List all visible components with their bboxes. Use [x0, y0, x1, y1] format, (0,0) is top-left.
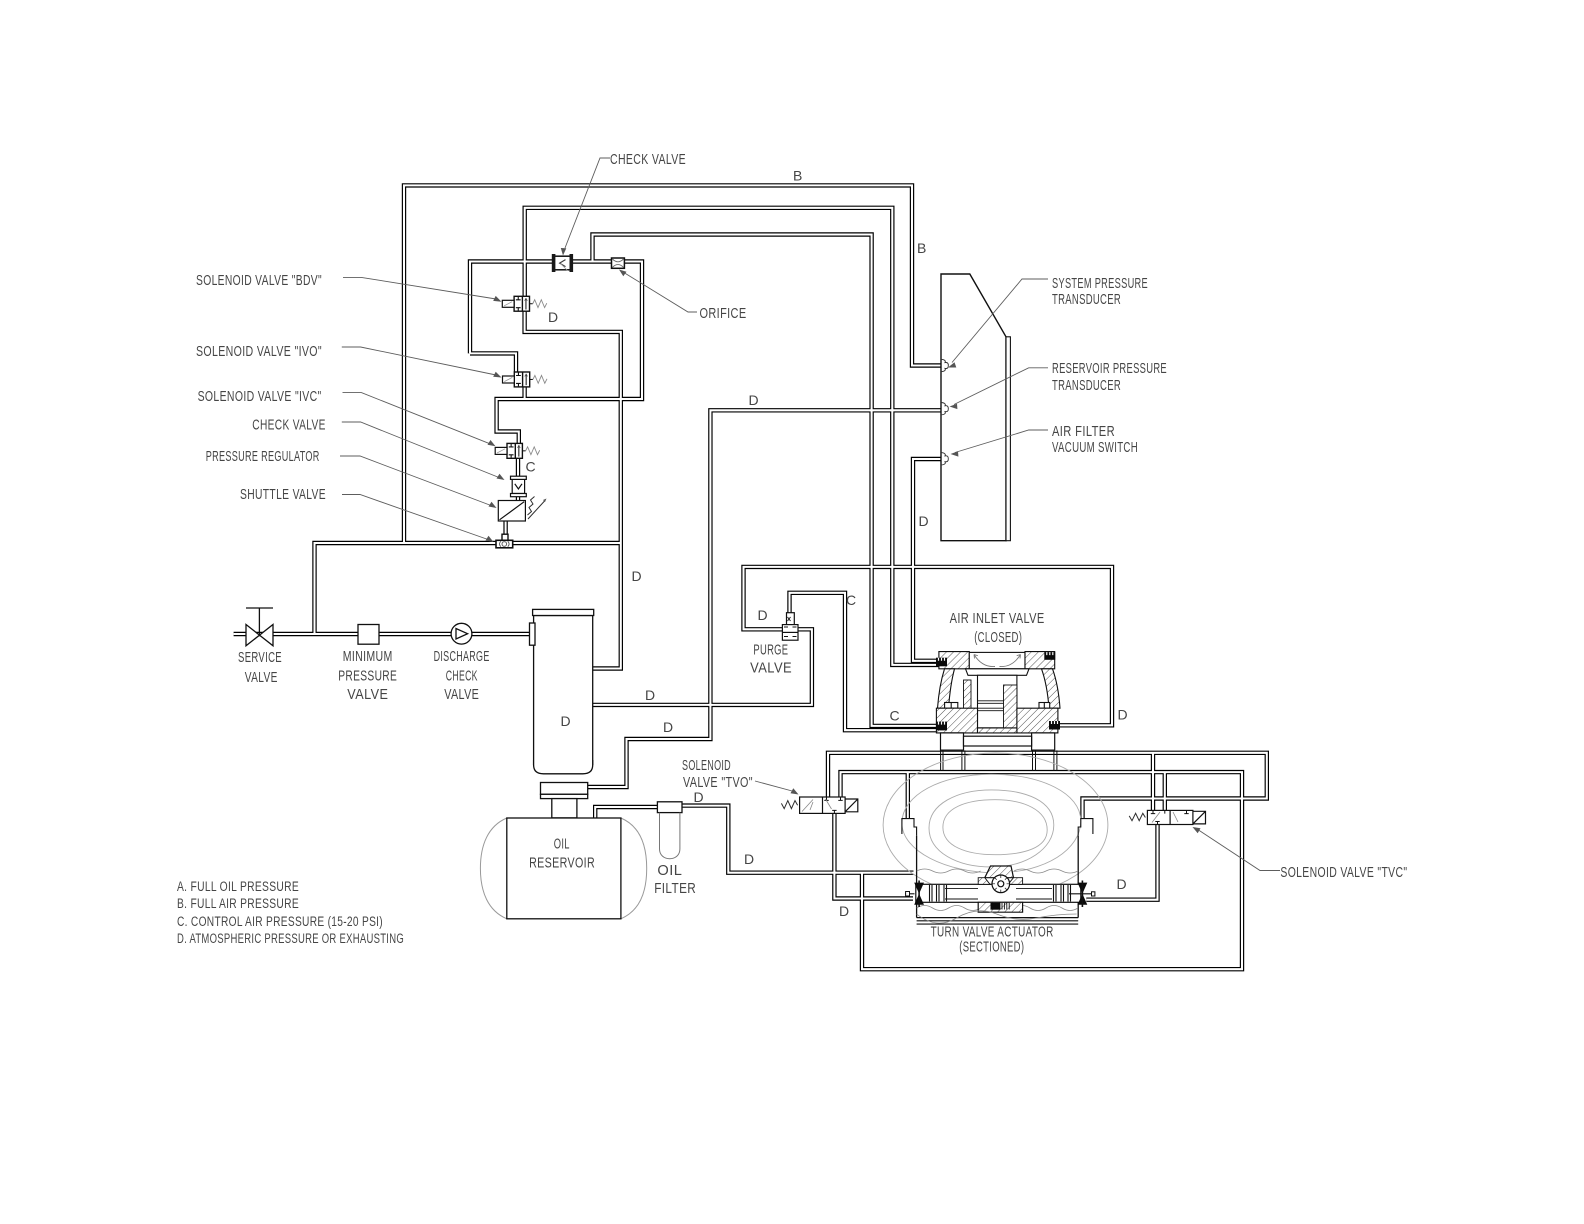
- svg-text:AIR FILTER: AIR FILTER: [1052, 423, 1115, 440]
- svg-text:D: D: [548, 309, 559, 325]
- svg-text:D: D: [839, 903, 850, 919]
- chamber base plate: [966, 669, 1030, 676]
- wire network (double-line pneumatic tubes): [234, 185, 1267, 969]
- piston seals right: [1054, 885, 1071, 902]
- top left hatched flange: [939, 652, 969, 669]
- wire housing vent left: [906, 772, 910, 819]
- discharge check valve: [451, 623, 472, 644]
- svg-text:VALVE: VALVE: [347, 686, 388, 703]
- transducer panel: [941, 274, 1010, 541]
- purge valve: [782, 613, 798, 640]
- leader solenoid TVO: [755, 781, 794, 792]
- wire tank outlet to purge valve: [593, 629, 812, 705]
- arrowheads: [561, 248, 567, 256]
- oil waves: [917, 869, 1078, 873]
- turn valve actuator: [883, 750, 1108, 924]
- right fitting stub: [1069, 893, 1093, 895]
- right port fitting: [1078, 883, 1088, 905]
- wire to IVO valve: [470, 353, 516, 372]
- leader check valve top: [565, 158, 610, 248]
- pedestal columns between tubes: [941, 750, 1057, 770]
- wire vacuum switch port line: [913, 459, 941, 661]
- svg-text:D: D: [694, 789, 705, 805]
- valve stem: [978, 675, 1017, 728]
- bolts: [945, 703, 958, 709]
- left fitting stub: [905, 893, 915, 895]
- shuttle valve: [496, 534, 513, 548]
- svg-text:B: B: [793, 168, 803, 184]
- leader pressure regulator: [340, 456, 491, 506]
- svg-text:C: C: [846, 592, 857, 608]
- port fitting 3: [941, 453, 948, 465]
- svg-text:B: B: [917, 240, 927, 256]
- svg-text:D: D: [749, 392, 760, 408]
- cylinder shaft: [916, 884, 1081, 902]
- wire main suction line: [234, 632, 531, 636]
- diaphragm section curves: [883, 753, 1108, 897]
- wire IVC to check valve: [516, 459, 520, 478]
- lower center block: [978, 902, 1022, 912]
- svg-text:D: D: [1117, 876, 1128, 892]
- solenoid valve IVC: [495, 443, 540, 458]
- svg-text:VALVE: VALVE: [245, 669, 278, 686]
- svg-text:OIL: OIL: [554, 835, 570, 852]
- svg-text:D: D: [744, 851, 755, 867]
- top right hatched flange: [1025, 652, 1055, 669]
- svg-text:DISCHARGE: DISCHARGE: [434, 648, 490, 665]
- minimum pressure valve: [358, 625, 379, 645]
- svg-text:TRANSDUCER: TRANSDUCER: [1052, 291, 1121, 308]
- wire TVC to actuator right port: [1086, 825, 1157, 900]
- svg-text:D: D: [632, 568, 643, 584]
- svg-text:SOLENOID VALVE "BDV": SOLENOID VALVE "BDV": [196, 272, 322, 289]
- svg-text:D: D: [663, 719, 674, 735]
- svg-text:A. FULL OIL PRESSURE: A. FULL OIL PRESSURE: [177, 879, 299, 894]
- svg-text:RESERVOIR: RESERVOIR: [529, 854, 595, 871]
- wire BDV exhaust to tank: [525, 311, 621, 668]
- svg-text:D: D: [758, 607, 769, 623]
- svg-text:OIL: OIL: [657, 862, 682, 879]
- port fitting 1: [941, 359, 948, 371]
- wire shuttle line: [315, 543, 621, 634]
- svg-text:(SECTIONED): (SECTIONED): [959, 939, 1024, 956]
- svg-text:ORIFICE: ORIFICE: [700, 305, 747, 322]
- svg-text:SHUTTLE VALVE: SHUTTLE VALVE: [240, 486, 326, 503]
- top chamber: [969, 652, 1025, 668]
- air inlet valve assembly: [936, 652, 1060, 751]
- solenoid valve IVO: [503, 372, 548, 387]
- svg-text:D: D: [919, 513, 930, 529]
- solenoid valve TVO: [781, 797, 857, 813]
- leader solenoid IVC: [343, 393, 491, 444]
- svg-text:D: D: [645, 687, 656, 703]
- leader solenoid IVO: [342, 347, 496, 375]
- right bell side hatched: [1042, 669, 1061, 708]
- svg-text:PRESSURE REGULATOR: PRESSURE REGULATOR: [206, 448, 320, 465]
- housing with notched corners: [902, 819, 917, 836]
- svg-text:(CLOSED): (CLOSED): [974, 629, 1022, 646]
- svg-text:C: C: [526, 459, 537, 475]
- port connectors (black): [936, 658, 1060, 731]
- svg-text:MINIMUM: MINIMUM: [343, 648, 393, 665]
- svg-text:AIR INLET VALVE: AIR INLET VALVE: [950, 610, 1045, 627]
- wire check valve / orifice line and D exhaust: [470, 262, 642, 444]
- wire regulator to shuttle valve: [503, 520, 507, 536]
- wire purge valve D loop to air inlet valve: [744, 567, 1113, 725]
- air/oil separator tank: [530, 609, 594, 817]
- svg-text:SOLENOID VALVE "IVC": SOLENOID VALVE "IVC": [198, 388, 322, 405]
- svg-text:FILTER: FILTER: [654, 880, 696, 897]
- wire TVO to actuator left port: [834, 813, 913, 898]
- wire IVO bottom stub: [522, 385, 526, 399]
- right top port: [1044, 652, 1055, 660]
- center block with gear: [985, 866, 1014, 878]
- check valve (top horizontal): [552, 254, 573, 272]
- leader solenoid TVC: [1197, 829, 1280, 871]
- wire oil filter to actuator housing: [682, 806, 914, 873]
- svg-text:PRESSURE: PRESSURE: [338, 668, 397, 685]
- solenoid valve TVC: [1129, 810, 1205, 824]
- svg-text:D: D: [561, 713, 572, 729]
- svg-text:CHECK VALVE: CHECK VALVE: [610, 151, 686, 168]
- service valve: [246, 608, 273, 646]
- svg-text:SOLENOID: SOLENOID: [682, 757, 731, 774]
- svg-text:VALVE: VALVE: [750, 659, 792, 676]
- svg-text:B. FULL AIR PRESSURE: B. FULL AIR PRESSURE: [177, 896, 299, 911]
- leader system pressure transducer: [952, 279, 1048, 363]
- LEADERS: [340, 158, 1280, 871]
- svg-text:CHECK: CHECK: [446, 668, 478, 685]
- svg-text:RESERVOIR PRESSURE: RESERVOIR PRESSURE: [1052, 360, 1167, 377]
- svg-text:PURGE: PURGE: [753, 642, 788, 659]
- COMPONENTS: [246, 254, 798, 919]
- oil filter: [657, 802, 682, 859]
- pressure regulator: [498, 497, 546, 522]
- leader air filter vacuum switch: [955, 430, 1048, 453]
- wire TVO inner loop: [841, 772, 1243, 969]
- leader orifice: [623, 272, 697, 312]
- svg-text:VALVE: VALVE: [444, 686, 479, 703]
- base plate: [917, 917, 1079, 919]
- lower flange hatched: [936, 708, 977, 733]
- svg-text:SYSTEM PRESSURE: SYSTEM PRESSURE: [1052, 275, 1148, 292]
- left bell side hatched: [938, 669, 955, 708]
- check valve (vertical, left column): [511, 476, 527, 497]
- wire TVC supply branch: [1151, 753, 1155, 811]
- svg-text:C. CONTROL AIR PRESSURE (15-20: C. CONTROL AIR PRESSURE (15-20 PSI): [177, 914, 383, 929]
- svg-text:C: C: [890, 708, 901, 724]
- svg-text:SOLENOID VALVE "TVC": SOLENOID VALVE "TVC": [1280, 864, 1407, 881]
- leader check valve left: [342, 422, 499, 478]
- left port fitting: [914, 883, 924, 905]
- wire B top loop: [404, 185, 941, 543]
- svg-text:TRANSDUCER: TRANSDUCER: [1052, 377, 1121, 394]
- leader solenoid BDV: [343, 277, 496, 299]
- oil reservoir: [480, 818, 646, 919]
- pedestal: [941, 733, 964, 750]
- wire check valve to regulator: [516, 495, 520, 502]
- wire TVC branch 2: [1163, 772, 1167, 810]
- wire TVO outer loop: [828, 753, 1267, 818]
- svg-text:D. ATMOSPHERIC PRESSURE OR EXH: D. ATMOSPHERIC PRESSURE OR EXHAUSTING: [177, 931, 404, 946]
- wire B second line to valve upper port: [525, 208, 941, 665]
- wire long D line to transducer port 2: [588, 410, 941, 787]
- port fitting 2: [941, 403, 948, 415]
- svg-text:VACUUM SWITCH: VACUUM SWITCH: [1052, 439, 1138, 456]
- wire reservoir to oil filter: [595, 807, 658, 818]
- wire purge valve C line to air inlet valve: [790, 593, 942, 730]
- svg-text:CHECK VALVE: CHECK VALVE: [252, 416, 325, 433]
- svg-text:SOLENOID VALVE "IVO": SOLENOID VALVE "IVO": [196, 343, 322, 360]
- piston seals left: [930, 885, 947, 902]
- orifice: [612, 258, 625, 268]
- leader reservoir pressure transducer: [954, 368, 1048, 405]
- svg-text:D: D: [1118, 707, 1129, 723]
- wire third line to valve lower port: [593, 235, 942, 726]
- svg-text:SERVICE: SERVICE: [238, 649, 282, 666]
- leader shuttle valve: [342, 495, 488, 540]
- solenoid valve BDV: [502, 296, 547, 311]
